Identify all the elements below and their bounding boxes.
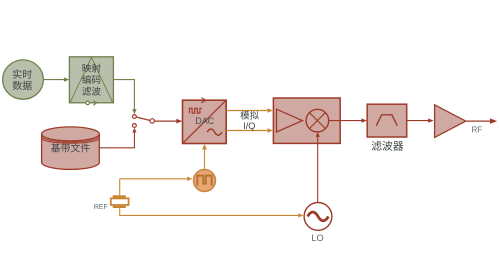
svg-text:REF: REF (94, 203, 109, 211)
svg-text:LO: LO (311, 233, 323, 243)
svg-text:I/Q: I/Q (243, 121, 255, 131)
svg-text:RF: RF (472, 125, 483, 134)
svg-text:DAC: DAC (195, 116, 214, 126)
